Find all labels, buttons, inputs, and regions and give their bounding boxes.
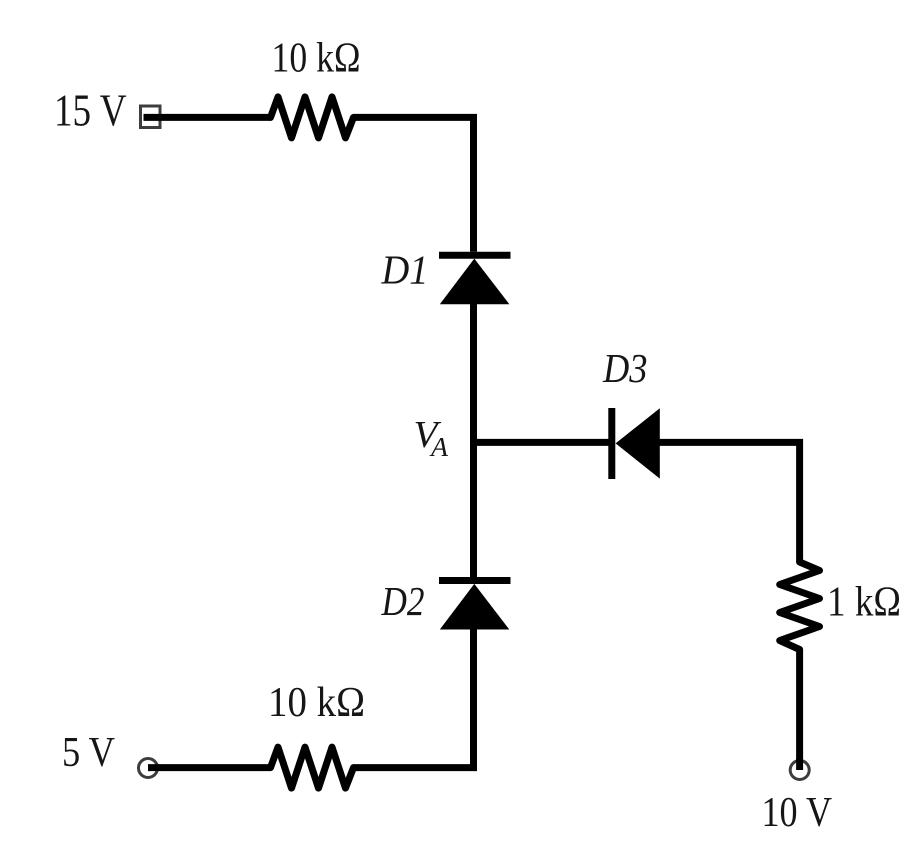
resistor R2 10 kOhm (bottom) [271, 747, 354, 788]
svg-text:10 kΩ: 10 kΩ [272, 36, 361, 82]
svg-text:D2: D2 [381, 578, 425, 624]
wire from 15V terminal to resistor [144, 114, 271, 121]
wire node A to D3 [474, 439, 609, 446]
resistor R1 10 kOhm (top) [271, 97, 354, 138]
diode D1 triangle [440, 259, 510, 305]
wire from D1 down through node A to D2 [470, 303, 477, 578]
svg-text:5 V: 5 V [62, 730, 115, 776]
wire from D3 to right corner, down to resistor [660, 442, 800, 562]
diode D3 triangle [616, 408, 660, 478]
svg-text:D1: D1 [381, 247, 429, 293]
svg-text:A: A [429, 432, 449, 462]
svg-text:15 V: 15 V [54, 86, 127, 136]
resistor R3 1 kOhm (right, vertical) [780, 562, 820, 650]
terminal circle (5 V source) [139, 759, 158, 778]
diode D1 cathode bar [439, 252, 511, 259]
diode D2 cathode bar [439, 577, 511, 584]
diode D3 cathode bar [608, 408, 615, 479]
wire from resistor R3 to 10V terminal [796, 650, 803, 771]
svg-text:D3: D3 [602, 345, 647, 391]
terminal square (15 V source) [141, 106, 161, 128]
wire from D2 down to bottom-left corner [354, 629, 474, 768]
svg-text:1 kΩ: 1 kΩ [827, 580, 901, 626]
terminal circle (10 V source) [790, 761, 809, 780]
svg-text:10 kΩ: 10 kΩ [268, 680, 365, 726]
wire from 5V terminal to resistor R2 [148, 764, 271, 771]
diode D2 triangle [440, 584, 510, 630]
svg-text:10 V: 10 V [762, 790, 833, 836]
wire from resistor to top-right corner, down to D1 [354, 117, 474, 251]
